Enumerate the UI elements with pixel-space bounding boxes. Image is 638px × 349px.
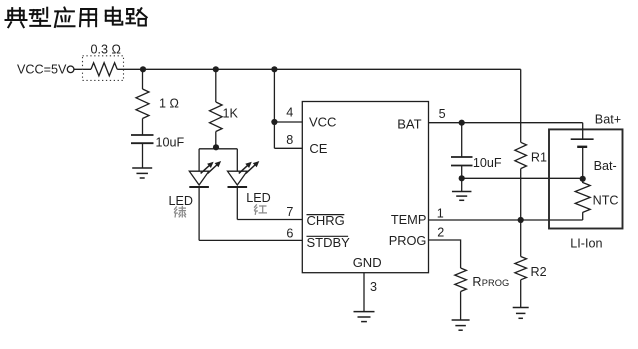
value label 10uF right — [473, 156, 502, 170]
junction BAT node — [459, 120, 465, 126]
ground left input — [132, 168, 152, 178]
label Bat+ — [595, 113, 621, 127]
wire resistor 1ohm to capacitor — [142, 119, 144, 136]
pin label STDBY with overline — [307, 235, 351, 250]
ref label Rprog — [472, 275, 509, 289]
svg-text:LED: LED — [246, 191, 271, 205]
wire cell negative to Bat- node — [582, 147, 584, 183]
svg-text:R: R — [472, 275, 481, 289]
wire capacitor to ground right — [461, 166, 463, 192]
svg-text:CE: CE — [309, 141, 327, 156]
wire rail down to VCC/CE pins — [273, 69, 275, 148]
svg-text:Bat-: Bat- — [594, 159, 617, 173]
svg-text:R1: R1 — [531, 150, 547, 164]
title 典型应用电路 — [6, 7, 147, 27]
svg-text:10uF: 10uF — [473, 156, 502, 170]
wire R2 to ground — [520, 280, 522, 308]
svg-text:GND: GND — [353, 255, 382, 270]
wire TEMP pin 1 to NTC — [429, 219, 583, 221]
wire capacitor to ground — [142, 143, 144, 168]
junction TEMP/R1/R2 node — [518, 217, 524, 223]
junction at pin 4 tee — [271, 119, 277, 125]
pin number 8 — [286, 133, 293, 147]
value label 1K — [223, 106, 239, 120]
pin number 2 — [437, 226, 444, 240]
svg-text:1K: 1K — [223, 106, 239, 120]
label LED (green) — [169, 194, 194, 208]
svg-text:NTC: NTC — [593, 193, 619, 207]
pin label CE — [309, 141, 327, 156]
ground under right capacitor — [452, 192, 472, 201]
svg-text:PROG: PROG — [482, 278, 509, 288]
resistor 0.3 Ohm — [91, 63, 117, 76]
wire Bat+ into battery cell — [582, 123, 584, 140]
resistor R2 — [515, 257, 527, 280]
wire BAT pin 5 to battery — [429, 122, 583, 124]
junction GND/Bat- node — [459, 175, 465, 181]
wire rail corner down to R1 — [520, 69, 522, 142]
label red hanzi — [255, 205, 267, 215]
pin label BAT — [397, 116, 421, 131]
capacitor 10uF left — [131, 135, 154, 143]
wire to green LED anode — [198, 149, 200, 171]
wire to pin 8 CE — [274, 147, 302, 149]
label NTC — [593, 193, 619, 207]
svg-text:BAT: BAT — [397, 116, 421, 131]
wire terminal to R 0.3ohm — [74, 68, 91, 70]
pin label TEMP — [391, 212, 427, 227]
wire GND node to Bat- — [462, 177, 583, 179]
pin number 5 — [439, 107, 446, 121]
wire PROG pin 2 to Rprog — [429, 240, 461, 268]
svg-text:7: 7 — [286, 205, 293, 219]
junction Bat- node — [580, 176, 586, 182]
wire red LED cathode down — [236, 187, 238, 220]
value label 1 Ohm — [159, 97, 179, 111]
svg-text:1 Ω: 1 Ω — [159, 97, 179, 111]
svg-text:TEMP: TEMP — [391, 212, 427, 227]
svg-text:10uF: 10uF — [156, 135, 185, 149]
wire rail to resistor 1 ohm — [142, 69, 144, 89]
svg-text:3: 3 — [370, 280, 377, 294]
input terminal circle — [67, 66, 74, 73]
wire rail to resistor 1K — [215, 69, 217, 102]
pin label PROG — [389, 233, 427, 248]
wire Rprog to ground — [460, 292, 462, 321]
junction on rail: VCC pin branch — [271, 66, 277, 72]
pin number 3 — [370, 280, 377, 294]
LED red (D2) — [228, 161, 260, 187]
svg-text:PROG: PROG — [389, 233, 427, 248]
svg-text:6: 6 — [286, 227, 293, 241]
svg-text:2: 2 — [437, 226, 444, 240]
ref label R2 — [531, 265, 547, 279]
wire R1 to TEMP node — [520, 169, 522, 220]
battery pack box LI-Ion — [549, 129, 623, 228]
wire to pin 6 STDBY — [199, 239, 302, 241]
svg-text:5: 5 — [439, 107, 446, 121]
wire to pin 4 VCC — [274, 121, 302, 123]
wire BAT node to capacitor 10uF right — [461, 123, 463, 157]
LED green (D1) — [189, 161, 221, 187]
svg-text:VCC=5V: VCC=5V — [17, 62, 67, 76]
pin number 4 — [286, 106, 293, 120]
resistor Rprog — [455, 268, 467, 292]
svg-text:0.3 Ω: 0.3 Ω — [91, 43, 121, 57]
svg-text:CHRG: CHRG — [307, 213, 345, 228]
pin number 1 — [437, 206, 444, 220]
resistor 1 Ohm — [136, 89, 149, 119]
svg-text:8: 8 — [286, 133, 293, 147]
value label 10uF left — [156, 135, 185, 149]
svg-text:1: 1 — [437, 206, 444, 220]
wire LED anode bus — [199, 148, 237, 150]
svg-text:LED: LED — [169, 194, 194, 208]
wire to pin 7 CHRG — [237, 219, 302, 221]
IC U1 charger body — [302, 102, 428, 273]
svg-text:STDBY: STDBY — [307, 235, 351, 250]
value label 0.3 Ohm — [91, 43, 121, 57]
battery cell negative plate — [577, 146, 587, 148]
junction node LED anodes — [213, 144, 219, 150]
wire NTC to TEMP line — [582, 212, 584, 220]
svg-text:LI-Ion: LI-Ion — [570, 236, 602, 250]
resistor R1 — [515, 142, 527, 168]
wire to red LED anode — [236, 149, 238, 171]
svg-text:4: 4 — [286, 106, 293, 120]
wire R2 top — [520, 220, 522, 257]
wire 1K to LED anode node — [215, 132, 217, 149]
pin label VCC — [309, 115, 336, 130]
capacitor 10uF right — [451, 157, 473, 166]
label LED (red) — [246, 191, 271, 205]
wire top VCC rail — [117, 68, 521, 70]
net label VCC=5V — [17, 62, 67, 76]
dashed box around 0.3ohm resistor — [83, 56, 124, 81]
svg-text:Bat+: Bat+ — [595, 113, 621, 127]
ground IC pin 3 — [354, 312, 375, 322]
resistor 1K — [210, 102, 223, 132]
pin label GND — [353, 255, 382, 270]
label green hanzi — [175, 207, 186, 217]
label LI-Ion — [570, 236, 602, 250]
svg-text:R2: R2 — [531, 265, 547, 279]
thermistor NTC — [575, 183, 590, 213]
pin number 7 — [286, 205, 293, 219]
ref label R1 — [531, 150, 547, 164]
pin label CHRG with overline — [307, 213, 345, 228]
label Bat- — [594, 159, 617, 173]
pin number 6 — [286, 227, 293, 241]
junction on rail: 1 ohm branch — [140, 66, 146, 72]
wire green LED cathode down — [198, 187, 200, 240]
wire pin 3 GND to ground — [363, 273, 365, 312]
ground under Rprog — [452, 320, 470, 330]
battery cell positive plate — [571, 138, 594, 140]
ground under R2 — [513, 308, 529, 319]
svg-text:VCC: VCC — [309, 115, 336, 130]
junction on rail: 1K branch — [213, 66, 219, 72]
